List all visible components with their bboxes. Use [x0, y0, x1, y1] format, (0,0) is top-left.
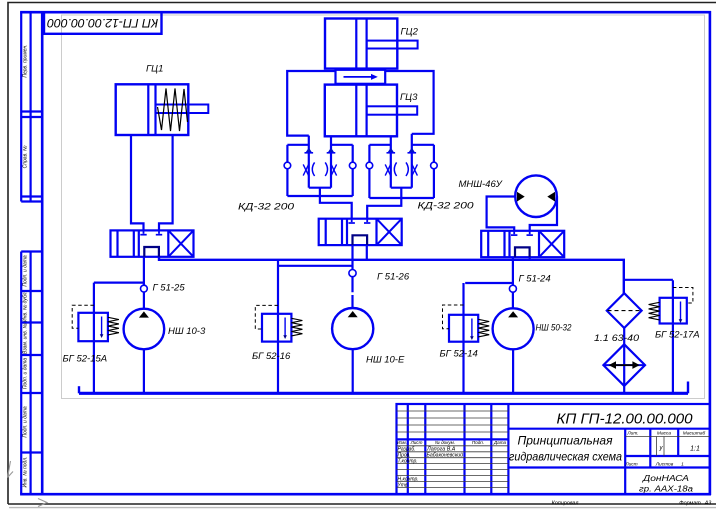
- svg-text:ДонНАСА: ДонНАСА: [642, 473, 690, 483]
- svg-text:Г 51-24: Г 51-24: [519, 274, 551, 285]
- svg-text:Инв. № подл.: Инв. № подл.: [23, 456, 29, 487]
- svg-text:гр. ААХ-18а: гр. ААХ-18а: [639, 484, 693, 494]
- svg-text:Принципиальная: Принципиальная: [518, 434, 614, 448]
- svg-text:Подп. и дата: Подп. и дата: [23, 406, 29, 438]
- svg-text:А3: А3: [704, 500, 712, 506]
- svg-text:БГ 52-14: БГ 52-14: [440, 349, 478, 360]
- svg-text:1.1 63-40: 1.1 63-40: [594, 333, 640, 344]
- svg-text:1:1: 1:1: [690, 446, 700, 453]
- svg-text:НШ 50-32: НШ 50-32: [536, 323, 573, 334]
- svg-text:Т.контр.: Т.контр.: [398, 459, 418, 465]
- svg-text:Инв. № дубл.: Инв. № дубл.: [23, 291, 29, 322]
- svg-text:КД-32 200: КД-32 200: [418, 201, 475, 212]
- svg-text:НШ 10-Е: НШ 10-Е: [366, 355, 405, 366]
- svg-text:Бабаконевский: Бабаконевский: [427, 452, 464, 459]
- svg-text:Подп. и дата: Подп. и дата: [23, 255, 29, 287]
- svg-text:ГЦ3: ГЦ3: [400, 92, 418, 103]
- svg-text:Лит.: Лит.: [626, 430, 638, 436]
- svg-text:БГ 52-17А: БГ 52-17А: [655, 330, 700, 341]
- svg-text:ГЦ1: ГЦ1: [146, 64, 163, 75]
- svg-text:Справ. №: Справ. №: [23, 145, 29, 168]
- svg-text:Формат: Формат: [679, 500, 701, 506]
- svg-text:Масштаб: Масштаб: [683, 430, 706, 436]
- svg-text:№ докум.: № докум.: [435, 440, 455, 445]
- svg-text:КП ГП-12.00.00.000: КП ГП-12.00.00.000: [47, 16, 158, 30]
- svg-text:Дата: Дата: [493, 440, 507, 445]
- svg-text:НШ 10-3: НШ 10-3: [168, 326, 206, 337]
- svg-text:Подп. и дата: Подп. и дата: [23, 358, 29, 390]
- svg-text:Утв: Утв: [398, 482, 408, 488]
- svg-text:Подп.: Подп.: [472, 440, 484, 445]
- svg-text:Г 51-26: Г 51-26: [377, 272, 410, 283]
- svg-text:гидравлическая схема: гидравлическая схема: [509, 450, 622, 464]
- svg-text:Листов: Листов: [655, 461, 674, 467]
- svg-text:Перв. примен.: Перв. примен.: [23, 44, 29, 77]
- svg-text:КД-32 200: КД-32 200: [238, 202, 295, 213]
- svg-text:Лист: Лист: [624, 461, 637, 467]
- svg-text:ГЦ2: ГЦ2: [401, 27, 419, 38]
- svg-text:Копировал: Копировал: [552, 500, 579, 506]
- svg-text:1: 1: [681, 461, 684, 467]
- svg-text:Взам. инв. №: Взам. инв. №: [23, 322, 29, 354]
- svg-text:БГ 52-15А: БГ 52-15А: [63, 354, 108, 365]
- svg-text:КП ГП-12.00.00.000: КП ГП-12.00.00.000: [557, 412, 693, 428]
- svg-text:МНШ-46У: МНШ-46У: [459, 179, 503, 190]
- svg-text:Лист: Лист: [410, 440, 423, 445]
- svg-text:Масса: Масса: [657, 430, 672, 436]
- svg-text:БГ 52-16: БГ 52-16: [252, 351, 291, 362]
- svg-text:Г 51-25: Г 51-25: [153, 283, 186, 294]
- svg-text:Изм.: Изм.: [397, 440, 407, 445]
